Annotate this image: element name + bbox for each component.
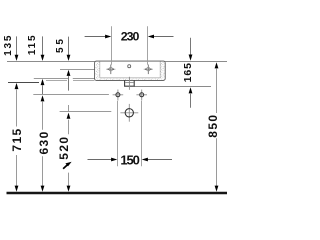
svg-text:230: 230	[121, 30, 140, 44]
svg-text:715: 715	[10, 127, 24, 151]
dim 55 column top	[68, 37, 70, 58]
ref line 165 (bracket bottom extended right)	[134, 86, 211, 88]
dim 850 vertical line with arrows (x=216.6)	[215, 62, 219, 68]
svg-text:135: 135	[3, 34, 14, 56]
basin inner line bottom	[100, 77, 160, 79]
dim 230: left arrow	[85, 36, 108, 38]
right mounting hole	[136, 90, 147, 101]
ref line 55 (tap hole centre extended left)	[60, 69, 95, 71]
520 NE indicator arrow	[63, 162, 72, 169]
dim 165 column (x=190.8)	[190, 38, 192, 57]
svg-text:55: 55	[55, 36, 66, 53]
basin inner line right	[159, 62, 161, 78]
left tap hole cross	[106, 65, 115, 75]
hatch band right	[160, 62, 165, 80]
mounting hole leader line	[33, 94, 109, 96]
svg-text:520: 520	[57, 135, 71, 159]
rim line (top horizontal reference, full width)	[7, 61, 227, 63]
dim 135 column	[16, 36, 18, 57]
dim 115 bottom arrow (x=42.8)	[41, 79, 45, 85]
svg-text:630: 630	[37, 130, 51, 154]
basin outline (plan view)	[95, 61, 166, 80]
dim 115 column top	[42, 36, 44, 57]
svg-text:150: 150	[120, 152, 139, 167]
basin bottom edge extended left	[46, 80, 67, 82]
hatch band left	[95, 62, 100, 80]
dim 230: extension lines	[111, 26, 113, 65]
drain bracket below basin	[125, 80, 135, 86]
dim 150: right arrow	[145, 159, 173, 161]
dim 715 vertical line with arrows (x=16.1)	[15, 83, 19, 89]
right tap hole cross	[144, 65, 153, 75]
dim 150: left arrow	[88, 159, 115, 161]
floor line	[7, 192, 228, 195]
left mounting hole	[113, 90, 124, 101]
dim 150: extension lines	[117, 101, 119, 166]
ref line 520 (drain circle centre extended left)	[60, 111, 112, 113]
basin inner line left	[99, 62, 101, 78]
svg-text:115: 115	[27, 34, 38, 56]
dim 55 bottom arrow (x=68.4)	[67, 70, 71, 76]
svg-text:850: 850	[206, 113, 220, 137]
ref line 135 (drain centre extended left)	[8, 82, 39, 84]
overflow hole	[128, 65, 131, 68]
dim 520 vertical line with arrows (x=68.5)	[68, 105, 70, 111]
svg-text:165: 165	[182, 62, 194, 82]
dim 230: right arrow	[151, 36, 174, 38]
ref line 115	[34, 78, 68, 80]
hatch band bottom	[100, 78, 161, 80]
drain bracket centre cross	[125, 77, 133, 90]
drain circle	[120, 104, 138, 122]
dim 630 vertical line with arrows (x=42.8)	[41, 95, 45, 101]
